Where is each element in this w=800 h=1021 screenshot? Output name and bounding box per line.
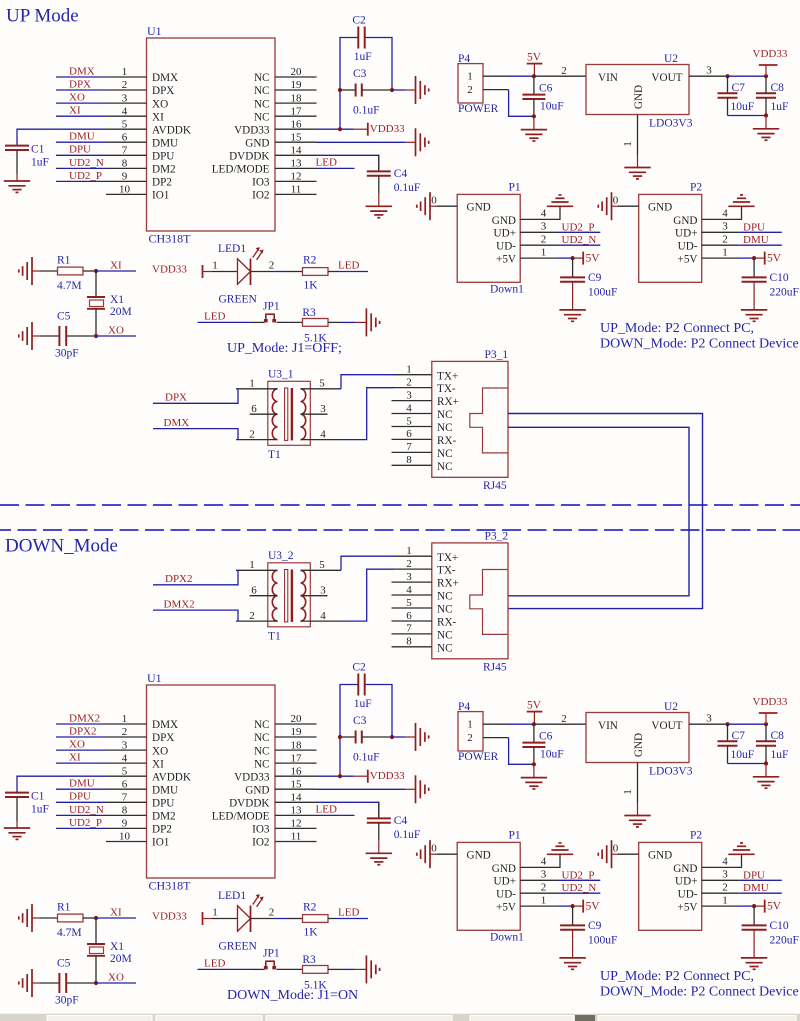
svg-text:3: 3	[541, 869, 547, 881]
svg-text:DOWN_Mode: DOWN_Mode	[5, 536, 118, 557]
wire	[378, 823, 380, 840]
svg-text:1: 1	[467, 70, 473, 82]
svg-text:1K: 1K	[304, 280, 319, 292]
wire	[520, 206, 560, 219]
svg-text:XI: XI	[110, 906, 122, 918]
svg-text:3: 3	[706, 64, 712, 76]
connector P4	[458, 712, 483, 751]
svg-text:C1: C1	[31, 791, 45, 803]
junction	[752, 904, 756, 908]
svg-text:1uF: 1uF	[354, 698, 372, 710]
svg-text:UD-: UD-	[678, 889, 698, 901]
svg-text:NC: NC	[437, 630, 453, 642]
wire	[557, 905, 573, 907]
wire DVDDK to C4	[317, 802, 379, 819]
svg-text:18: 18	[291, 92, 303, 104]
ground	[366, 308, 379, 336]
wire	[83, 270, 96, 272]
wire	[378, 840, 380, 853]
connector P1	[457, 842, 547, 930]
wire	[765, 76, 767, 93]
svg-text:IO1: IO1	[152, 190, 169, 202]
wire	[56, 76, 106, 78]
svg-text:UD2_N: UD2_N	[562, 882, 597, 894]
regulator U2 LDO3V3	[586, 65, 689, 115]
wire XO	[96, 982, 136, 984]
svg-text:IO3: IO3	[252, 177, 270, 189]
junction	[338, 88, 342, 92]
wire	[765, 764, 767, 777]
svg-text:RJ45: RJ45	[483, 662, 507, 674]
wire XO	[96, 335, 136, 337]
resistor R3	[303, 966, 329, 974]
svg-text:220uF: 220uF	[770, 287, 799, 299]
wire	[276, 918, 288, 920]
ground	[598, 840, 611, 868]
svg-text:C9: C9	[588, 272, 602, 284]
svg-text:U3_1: U3_1	[268, 369, 294, 381]
svg-text:CH318T: CH318T	[149, 879, 192, 893]
wire TX crossover outer	[508, 414, 703, 609]
jumper JP1	[264, 961, 276, 969]
svg-text:5: 5	[122, 118, 128, 130]
svg-text:LDO3V3: LDO3V3	[649, 765, 693, 777]
svg-text:RX+: RX+	[437, 396, 459, 408]
svg-text:1K: 1K	[304, 927, 319, 939]
wire	[204, 918, 213, 920]
svg-text:AVDDK: AVDDK	[152, 771, 191, 783]
svg-text:4: 4	[320, 610, 326, 622]
svg-text:C6: C6	[539, 83, 553, 95]
svg-text:4: 4	[122, 752, 128, 764]
wire	[533, 116, 535, 129]
svg-text:DMU: DMU	[152, 137, 178, 149]
svg-text:2: 2	[722, 881, 728, 893]
svg-text:DMU: DMU	[69, 778, 95, 790]
svg-text:XI: XI	[152, 111, 164, 123]
svg-text:10uF: 10uF	[731, 749, 755, 761]
svg-text:6: 6	[122, 778, 128, 790]
wire	[16, 821, 18, 828]
wire	[533, 764, 535, 777]
connector P1	[457, 194, 547, 282]
svg-text:20: 20	[291, 66, 303, 78]
wire	[430, 205, 436, 207]
wire	[56, 723, 106, 725]
svg-text:C8: C8	[771, 82, 785, 94]
ground	[416, 128, 429, 156]
wire	[727, 746, 729, 764]
svg-text:DMX: DMX	[152, 719, 178, 731]
junction	[94, 269, 98, 273]
svg-text:DPU: DPU	[69, 791, 91, 803]
ground	[366, 853, 392, 864]
svg-text:NC: NC	[437, 604, 453, 616]
junction	[764, 761, 768, 765]
svg-text:C5: C5	[57, 311, 71, 323]
wire	[753, 930, 755, 958]
svg-text:C10: C10	[770, 920, 789, 932]
wire	[277, 321, 303, 323]
svg-text:POWER: POWER	[458, 103, 499, 115]
connector P3_2 RJ45	[392, 543, 509, 659]
svg-text:VOUT: VOUT	[651, 720, 682, 732]
svg-text:10uF: 10uF	[540, 101, 564, 113]
svg-text:2: 2	[467, 732, 473, 744]
ground	[547, 843, 573, 854]
wire	[509, 738, 534, 765]
wire	[378, 155, 380, 172]
svg-text:14: 14	[291, 145, 303, 157]
svg-text:POWER: POWER	[458, 751, 499, 763]
junction	[94, 916, 98, 920]
svg-text:2: 2	[541, 233, 547, 245]
wire GND	[317, 141, 406, 143]
power port VDD33	[367, 770, 369, 783]
svg-text:1: 1	[541, 894, 547, 906]
svg-text:TX+: TX+	[437, 552, 458, 564]
capacitor C5	[59, 973, 66, 993]
svg-text:15: 15	[291, 778, 303, 790]
svg-text:LED: LED	[204, 311, 225, 323]
junction	[338, 127, 342, 131]
svg-text:UD2_N: UD2_N	[562, 234, 597, 246]
svg-text:R3: R3	[302, 954, 316, 966]
svg-text:DPU: DPU	[743, 221, 765, 233]
svg-text:5: 5	[406, 415, 412, 427]
capacitor C2	[358, 27, 364, 49]
ground	[4, 828, 30, 839]
svg-text:6: 6	[406, 428, 412, 440]
capacitor C4	[367, 818, 391, 822]
capacitor C10	[742, 277, 767, 281]
svg-text:DPX2: DPX2	[165, 573, 193, 585]
svg-text:DPX: DPX	[69, 78, 91, 90]
svg-text:0: 0	[613, 195, 619, 207]
svg-text:VDD33: VDD33	[370, 123, 405, 135]
capacitor C3	[356, 84, 362, 97]
svg-text:XO: XO	[69, 739, 85, 751]
svg-text:4: 4	[406, 584, 412, 596]
svg-text:NC: NC	[437, 591, 453, 603]
svg-text:NC: NC	[254, 732, 270, 744]
svg-text:UD-: UD-	[496, 241, 516, 253]
wire	[252, 321, 265, 323]
wire	[702, 854, 742, 867]
svg-text:U3_2: U3_2	[268, 550, 294, 562]
svg-text:3: 3	[320, 585, 326, 597]
power port 5V	[764, 252, 766, 265]
svg-text:10: 10	[119, 184, 131, 196]
svg-text:NC: NC	[254, 72, 270, 84]
wire	[702, 231, 740, 233]
wire	[67, 335, 96, 337]
wire	[32, 982, 40, 984]
svg-text:UP Mode: UP Mode	[6, 6, 79, 27]
svg-text:10: 10	[119, 831, 131, 843]
ground	[728, 195, 754, 206]
ground	[19, 904, 32, 932]
wire	[40, 982, 59, 984]
svg-text:IO1: IO1	[152, 837, 169, 849]
wire	[328, 968, 342, 970]
wire	[251, 271, 277, 273]
wire	[32, 270, 40, 272]
svg-text:XO: XO	[152, 745, 168, 757]
svg-text:2: 2	[467, 84, 473, 96]
connector P3_1 RJ45	[392, 361, 509, 477]
wire	[612, 205, 618, 207]
svg-text:2: 2	[122, 726, 128, 738]
svg-text:GREEN: GREEN	[219, 941, 258, 953]
svg-text:DMX2: DMX2	[164, 598, 195, 610]
svg-text:2: 2	[249, 610, 255, 622]
wire	[739, 244, 782, 246]
svg-text:3: 3	[722, 869, 728, 881]
wire	[483, 723, 508, 725]
wire	[637, 155, 639, 168]
svg-text:5V: 5V	[527, 699, 542, 711]
svg-text:GND: GND	[673, 863, 697, 875]
svg-text:UD2_N: UD2_N	[69, 804, 104, 816]
wire	[405, 89, 416, 91]
svg-text:NC: NC	[254, 758, 270, 770]
wire	[572, 906, 574, 926]
svg-text:GND: GND	[492, 863, 516, 875]
svg-text:P2: P2	[690, 829, 702, 841]
svg-text:2: 2	[406, 558, 412, 570]
svg-text:5: 5	[122, 765, 128, 777]
ground	[19, 322, 32, 350]
wire	[16, 151, 18, 174]
wire	[533, 99, 535, 116]
capacitor C5	[59, 326, 66, 346]
wire	[16, 174, 18, 181]
svg-text:3: 3	[122, 739, 128, 751]
svg-text:1: 1	[622, 789, 634, 795]
svg-text:P4: P4	[458, 701, 470, 713]
svg-text:XI: XI	[69, 105, 81, 117]
svg-text:RX+: RX+	[437, 578, 459, 590]
svg-text:X1: X1	[110, 941, 124, 953]
svg-text:4: 4	[320, 428, 326, 440]
svg-text:17: 17	[291, 752, 303, 764]
ground	[521, 130, 547, 141]
wire	[572, 930, 574, 958]
svg-text:1uF: 1uF	[31, 804, 49, 816]
junction	[94, 334, 98, 338]
svg-text:DPX: DPX	[152, 85, 174, 97]
svg-text:UD+: UD+	[494, 876, 516, 888]
wire	[765, 98, 767, 116]
svg-text:VDD33: VDD33	[152, 910, 187, 922]
svg-text:6: 6	[251, 403, 257, 415]
ground	[624, 816, 650, 827]
wire	[689, 723, 728, 725]
wire LED	[317, 167, 355, 169]
ground	[4, 181, 30, 192]
wire	[392, 89, 405, 91]
svg-text:XO: XO	[108, 971, 124, 983]
svg-text:1: 1	[122, 713, 128, 725]
wire	[765, 116, 767, 129]
svg-text:UD+: UD+	[494, 228, 516, 240]
svg-text:DMX2: DMX2	[69, 712, 100, 724]
svg-text:DPX: DPX	[152, 732, 174, 744]
svg-text:11: 11	[291, 184, 302, 196]
svg-text:NC: NC	[437, 422, 453, 434]
svg-text:0.1uF: 0.1uF	[394, 182, 421, 194]
wire	[342, 968, 355, 970]
svg-text:+5V: +5V	[496, 254, 516, 266]
svg-text:XI: XI	[110, 259, 122, 271]
svg-text:1uF: 1uF	[31, 157, 49, 169]
ground	[366, 955, 379, 983]
svg-text:P3_1: P3_1	[485, 349, 509, 361]
wire	[83, 917, 96, 919]
svg-text:2: 2	[249, 428, 255, 440]
svg-text:RX-: RX-	[437, 617, 457, 629]
wire	[341, 556, 393, 570]
svg-text:UD2_P: UD2_P	[562, 869, 595, 881]
wire	[340, 89, 356, 91]
wire	[739, 892, 782, 894]
wire	[95, 918, 97, 944]
svg-text:5V: 5V	[527, 51, 542, 63]
svg-text:DPX2: DPX2	[69, 725, 97, 737]
svg-text:1uF: 1uF	[771, 101, 789, 113]
svg-text:C10: C10	[770, 272, 789, 284]
svg-text:C7: C7	[732, 730, 746, 742]
svg-text:DMX: DMX	[152, 72, 178, 84]
svg-text:100uF: 100uF	[588, 287, 617, 299]
svg-text:0: 0	[431, 843, 437, 855]
svg-text:XI: XI	[152, 758, 164, 770]
wire	[739, 231, 782, 233]
svg-text:5: 5	[319, 559, 325, 571]
junction	[571, 904, 575, 908]
wire	[56, 167, 106, 169]
svg-text:9: 9	[122, 171, 128, 183]
svg-text:R3: R3	[302, 307, 316, 319]
crystal X1	[87, 297, 105, 309]
ground	[417, 840, 430, 868]
wire	[341, 375, 393, 389]
svg-text:TX+: TX+	[437, 370, 458, 382]
svg-text:XO: XO	[69, 92, 85, 104]
taskbar strip	[0, 1013, 800, 1021]
svg-text:VDD33: VDD33	[234, 124, 270, 136]
IC U1 CH318T (top)	[106, 38, 317, 231]
svg-text:4.7M: 4.7M	[57, 280, 82, 292]
wire C2 right to loop	[365, 685, 392, 738]
power port 5V	[582, 252, 584, 265]
svg-text:1: 1	[122, 66, 128, 78]
power port 5V	[582, 900, 584, 913]
svg-text:16: 16	[291, 118, 303, 130]
svg-text:XI: XI	[69, 752, 81, 764]
wire	[362, 89, 392, 91]
ground	[417, 192, 430, 220]
svg-text:LED1: LED1	[218, 243, 246, 255]
wire	[558, 231, 601, 233]
svg-text:GND: GND	[673, 215, 697, 227]
LED LED1	[238, 247, 264, 285]
wire	[520, 892, 558, 894]
wire C2/C3 loop	[340, 38, 358, 130]
transformer T1 (U3_2)	[236, 559, 341, 627]
IC U1 CH318T (bottom)	[106, 685, 317, 878]
wire	[355, 968, 366, 970]
wire	[520, 854, 560, 867]
wire	[702, 244, 740, 246]
ground	[19, 969, 32, 997]
svg-text:UP_Mode: P2 Connect PC,: UP_Mode: P2 Connect PC,	[600, 969, 754, 984]
svg-text:GND: GND	[245, 137, 269, 149]
wire	[702, 206, 742, 219]
wire	[392, 736, 405, 738]
svg-text:UD2_P: UD2_P	[69, 817, 102, 829]
wire	[739, 879, 782, 881]
wire	[56, 762, 106, 764]
ground	[559, 958, 585, 969]
svg-text:VDD33: VDD33	[753, 48, 788, 60]
ground	[741, 958, 767, 969]
svg-text:20M: 20M	[110, 306, 132, 318]
wire LED	[335, 918, 368, 920]
svg-text:UD-: UD-	[678, 241, 698, 253]
wire	[405, 788, 416, 790]
svg-text:R1: R1	[57, 255, 71, 267]
svg-text:UD+: UD+	[675, 876, 697, 888]
wire	[212, 271, 238, 273]
wire	[572, 258, 574, 278]
svg-text:30pF: 30pF	[55, 995, 79, 1007]
svg-text:IO3: IO3	[252, 824, 270, 836]
wire	[702, 879, 740, 881]
wire C2/C3 loop	[340, 685, 358, 777]
wire XI	[96, 917, 136, 919]
wire	[483, 75, 508, 77]
regulator U2 LDO3V3	[586, 713, 689, 763]
svg-text:LED: LED	[338, 906, 359, 918]
svg-text:9: 9	[122, 818, 128, 830]
ground	[598, 192, 611, 220]
wire	[558, 244, 601, 246]
wire	[276, 271, 288, 273]
wire	[520, 231, 558, 233]
capacitor C9	[560, 277, 585, 281]
wire	[533, 76, 535, 95]
ground	[547, 195, 573, 206]
wire	[378, 176, 380, 193]
svg-text:1uF: 1uF	[771, 749, 789, 761]
svg-text:UD2_P: UD2_P	[69, 170, 102, 182]
wire	[56, 814, 106, 816]
ground	[741, 310, 767, 321]
wire	[754, 905, 765, 907]
svg-text:X1: X1	[110, 294, 124, 306]
svg-text:C4: C4	[394, 168, 408, 180]
wire	[558, 879, 601, 881]
svg-text:VDD33: VDD33	[370, 770, 405, 782]
divider dashed line	[0, 529, 800, 531]
svg-text:1: 1	[541, 246, 547, 258]
wire	[405, 736, 416, 738]
svg-text:IO2: IO2	[252, 190, 269, 202]
ground	[753, 129, 779, 140]
wire	[95, 271, 97, 297]
